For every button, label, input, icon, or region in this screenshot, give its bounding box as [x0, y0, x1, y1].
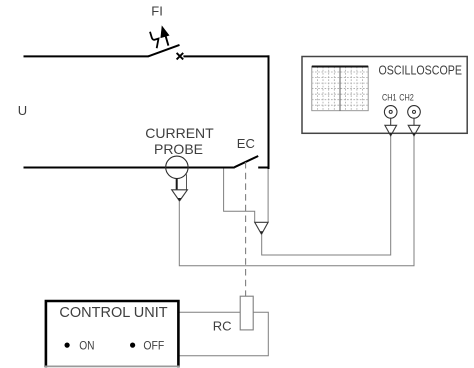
- svg-text:OSCILLOSCOPE: OSCILLOSCOPE: [379, 62, 463, 77]
- mechanical link dashed line EC to RC: [245, 162, 247, 296]
- connector CH1: [384, 106, 397, 136]
- wire: mains top right segment: [183, 55, 269, 57]
- svg-text:PROBE: PROBE: [154, 141, 203, 157]
- oscilloscope box: [302, 57, 467, 134]
- control unit box: [46, 301, 179, 367]
- svg-text:U: U: [18, 103, 27, 118]
- OFF indicator dot: [130, 343, 135, 348]
- svg-text:EC: EC: [237, 136, 255, 151]
- signal lead: current probe to CH2: [179, 136, 414, 266]
- EC voltage tap right: [267, 169, 269, 222]
- circuit breaker FI lever: [148, 45, 180, 57]
- ON indicator dot: [65, 343, 70, 348]
- signal lead: EC probe to CH1: [262, 136, 391, 255]
- svg-text:FI: FI: [151, 4, 163, 19]
- svg-text:OFF: OFF: [143, 340, 164, 353]
- FI trip arrow head: [161, 26, 169, 38]
- wire: vertical drop to EC fixed contact: [268, 55, 270, 169]
- control loop wires to RC: [180, 312, 269, 356]
- wire: mains bottom segment: [24, 167, 235, 169]
- svg-text:RC: RC: [213, 319, 232, 334]
- current probe output lead thin: [186, 174, 188, 190]
- svg-text:CH1: CH1: [382, 93, 397, 103]
- FI fixed contact cross: [177, 53, 184, 60]
- svg-text:CH2: CH2: [399, 93, 414, 103]
- connector CH2: [408, 106, 421, 136]
- wire: EC fixed contact stub: [258, 167, 269, 169]
- svg-text:CURRENT: CURRENT: [145, 125, 214, 141]
- EC voltage tap left: [224, 169, 255, 223]
- svg-text:ON: ON: [79, 340, 94, 353]
- FI release hook: [150, 32, 159, 48]
- svg-text:CONTROL UNIT: CONTROL UNIT: [59, 305, 167, 321]
- wire: mains top left segment: [24, 55, 149, 57]
- current probe circle: [166, 156, 188, 178]
- EC connector arrow: [255, 222, 268, 234]
- FI trip arrow shaft: [165, 33, 169, 46]
- resistor RC: [240, 296, 253, 330]
- oscilloscope screen graticule: [312, 67, 368, 111]
- current probe connector arrow: [172, 190, 188, 201]
- contactor EC lever: [235, 156, 259, 167]
- current probe output stub thick: [176, 179, 178, 190]
